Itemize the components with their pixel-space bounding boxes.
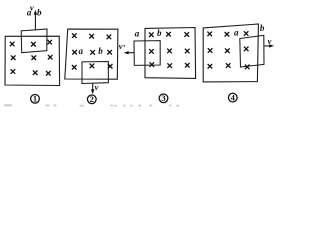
svg-text:a: a	[79, 46, 84, 56]
svg-text:v: v	[268, 36, 272, 46]
svg-text:v: v	[119, 41, 123, 51]
svg-text:b: b	[157, 28, 162, 38]
svg-text:1: 1	[33, 94, 37, 104]
svg-text:a: a	[27, 8, 32, 18]
svg-text:b: b	[37, 8, 42, 18]
svg-text:a: a	[135, 28, 140, 38]
svg-text:v: v	[95, 82, 99, 92]
svg-text:b: b	[98, 46, 103, 56]
svg-text:2: 2	[90, 94, 94, 104]
svg-text:3: 3	[161, 93, 165, 103]
svg-text:a: a	[234, 27, 239, 37]
svg-text:4: 4	[231, 92, 236, 102]
svg-text:b: b	[260, 23, 265, 33]
